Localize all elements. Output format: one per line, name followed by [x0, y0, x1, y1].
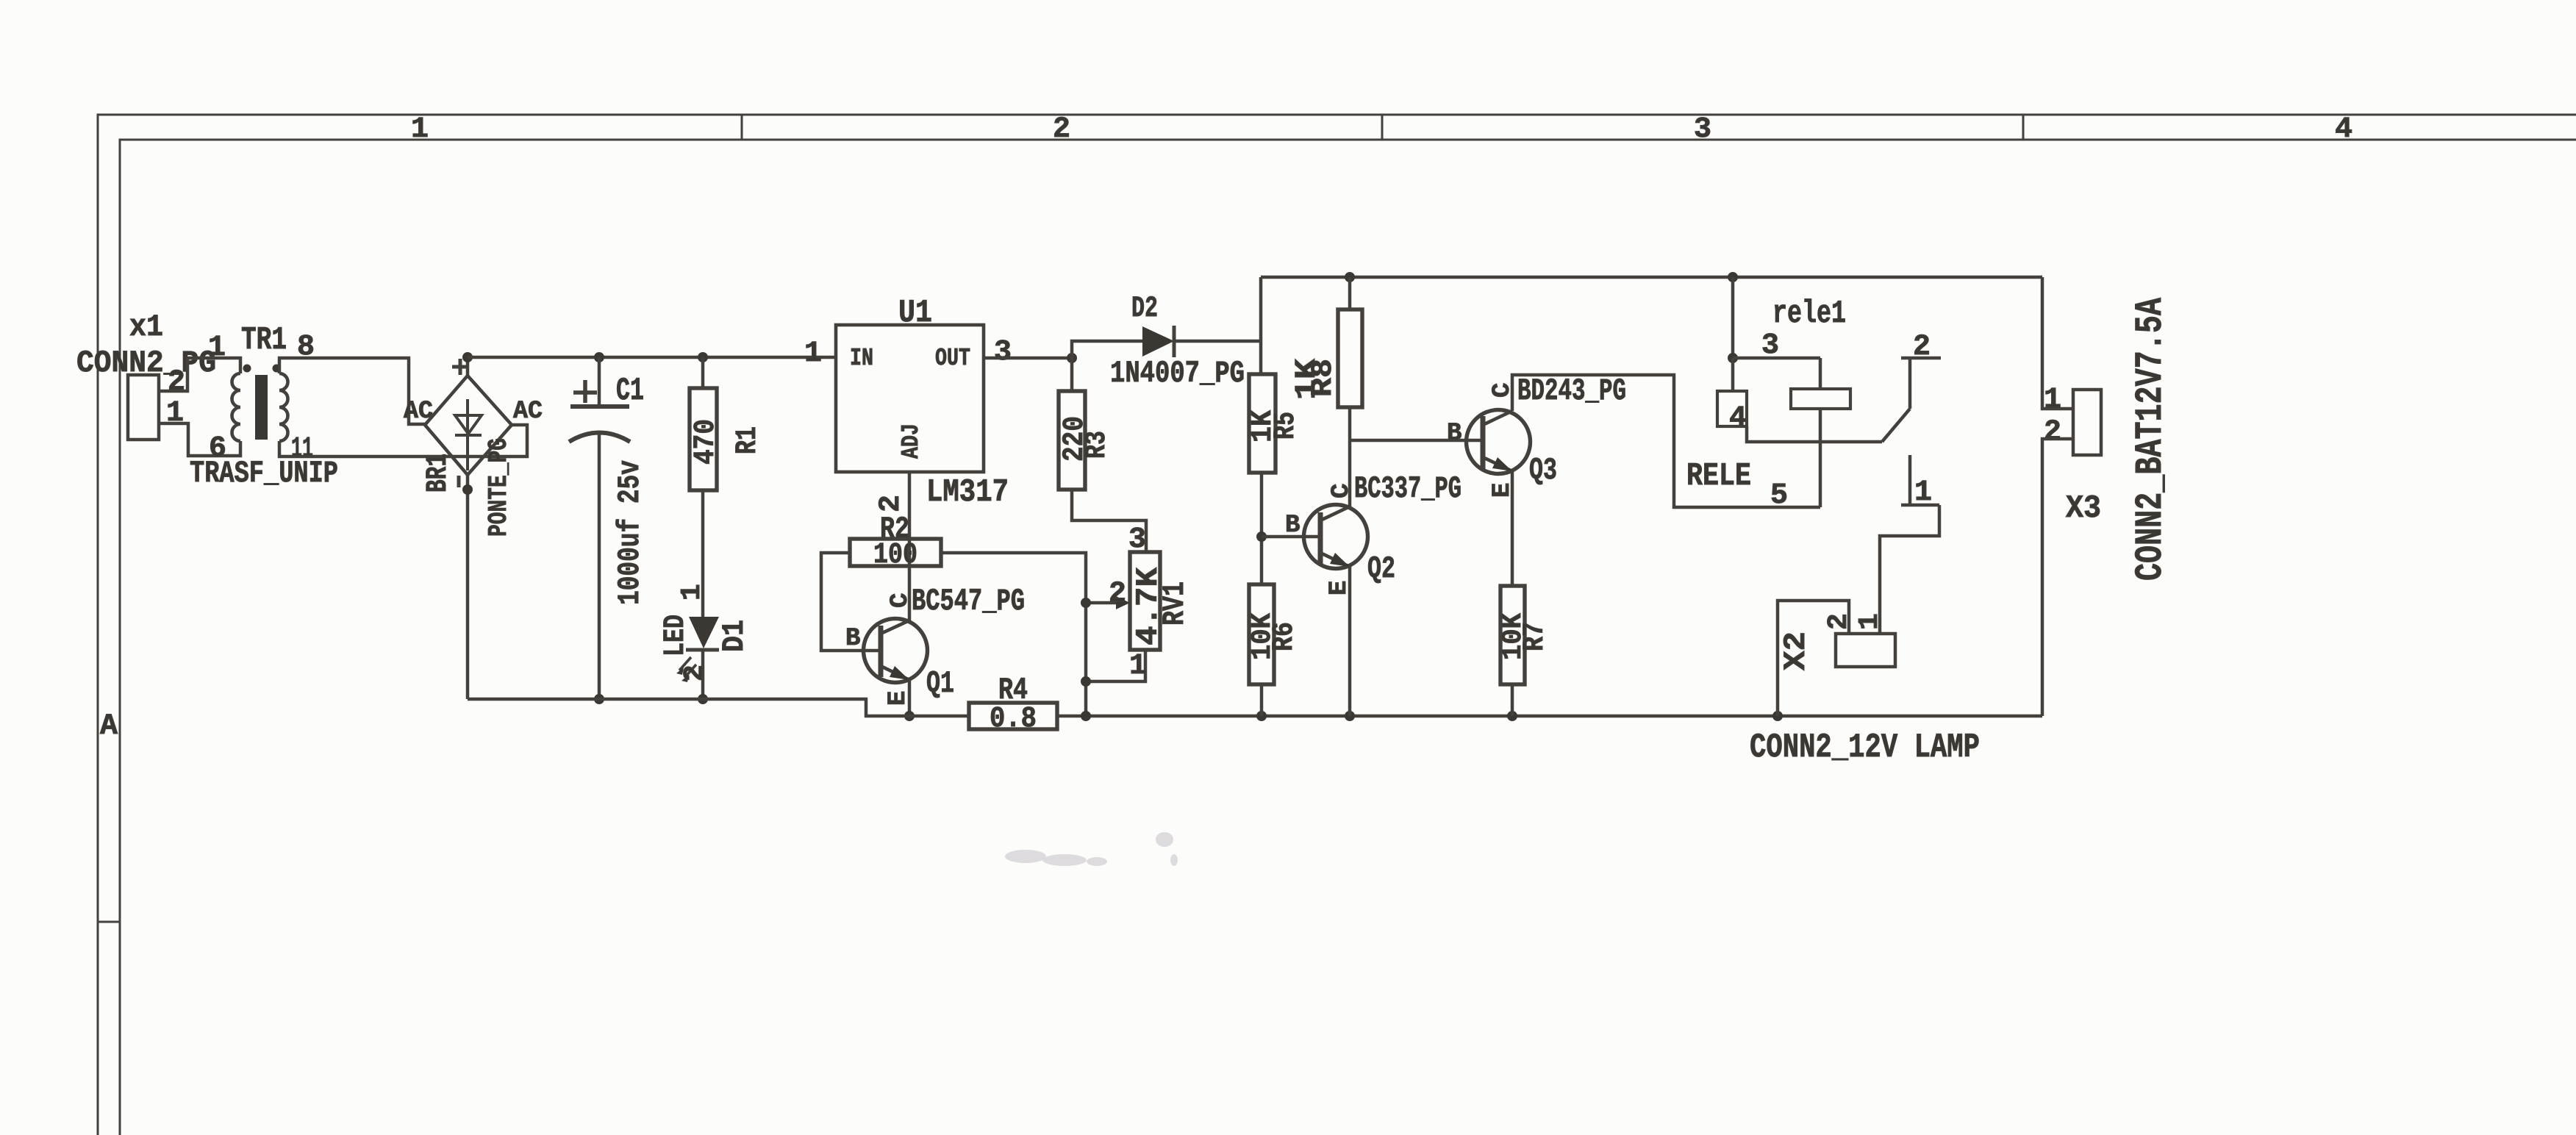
- wire OUT node down to R3: [1070, 358, 1074, 391]
- BR1 minus label: [457, 476, 461, 487]
- C1 top plate: [570, 404, 629, 409]
- svg-text:1000uf 25v: 1000uf 25v: [612, 460, 648, 605]
- border column tick 3|4: [2022, 115, 2025, 140]
- border column tick 2|3: [1381, 115, 1384, 140]
- svg-text:BC547_PG: BC547_PG: [912, 584, 1025, 619]
- junction dot OUT node: [1067, 353, 1077, 363]
- svg-text:1: 1: [1914, 476, 1932, 509]
- scan smudges (decorative): [1005, 832, 1178, 866]
- Q3 emitter lead: [1511, 471, 1514, 586]
- svg-text:2: 2: [1823, 613, 1855, 630]
- svg-text:C: C: [887, 593, 915, 608]
- Q1 emitter arrow: [890, 666, 909, 680]
- Q3 emitter diagonal: [1483, 457, 1512, 471]
- potentiometer RV1 body: [1130, 552, 1160, 650]
- svg-text:IN: IN: [850, 345, 873, 372]
- wire TR1 pin8 to bridge AC left: [279, 358, 425, 424]
- junction dot relay supply: [1728, 272, 1738, 282]
- wire D2 to R5 column: [1174, 340, 1261, 343]
- svg-text:X3: X3: [2066, 490, 2101, 527]
- svg-text:2: 2: [1913, 331, 1931, 364]
- connector x1 CONN2_PG body: [128, 375, 159, 440]
- svg-text:B: B: [845, 625, 860, 653]
- svg-text:E: E: [884, 691, 912, 706]
- svg-text:R7: R7: [1519, 622, 1552, 651]
- svg-text:LM317: LM317: [926, 474, 1009, 511]
- junction dot R7 bottom: [1507, 711, 1517, 721]
- Q1 collector diagonal: [881, 620, 909, 634]
- border column tick 1|2: [741, 115, 743, 140]
- wire R3 bottom to RV1 pin3: [1072, 490, 1146, 552]
- svg-text:B: B: [1285, 512, 1300, 540]
- junction dot bridge minus: [462, 484, 473, 495]
- Q2 emitter arrow: [1330, 553, 1350, 567]
- Q1 emitter lead: [908, 680, 912, 716]
- TR1 secondary winding: [279, 373, 288, 441]
- relay coil vertical: [1819, 358, 1822, 389]
- svg-text:CONN2_BAT12V7.5A: CONN2_BAT12V7.5A: [2129, 297, 2172, 581]
- svg-text:RV1: RV1: [1157, 581, 1192, 626]
- svg-text:C: C: [1328, 484, 1356, 498]
- wire x1 pin2 to TR1 pin1: [159, 358, 240, 391]
- wire relay pin1 to X2 pin1: [1880, 505, 1939, 634]
- svg-text:OUT: OUT: [935, 345, 970, 372]
- RV1 wiper arrow wire: [1086, 601, 1120, 605]
- svg-text:CONN2_PG: CONN2_PG: [76, 345, 216, 381]
- svg-text:C1: C1: [616, 373, 644, 409]
- junction dot relay pin3: [1728, 353, 1738, 363]
- svg-text:LED: LED: [659, 615, 693, 656]
- svg-text:D1: D1: [717, 620, 752, 652]
- wire x1 pin1 to TR1 pin6: [159, 423, 240, 456]
- junction dot Q2 base node: [1256, 531, 1267, 542]
- svg-text:2: 2: [2044, 416, 2061, 449]
- svg-text:BR1: BR1: [422, 454, 455, 493]
- svg-text:CONN2_12V LAMP: CONN2_12V LAMP: [1750, 728, 1980, 767]
- junction dot bridge plus: [462, 352, 473, 362]
- TR1 polarity dot right: [273, 365, 281, 373]
- op-amp/regulator U1 box: [836, 325, 984, 472]
- capacitor C1 top lead: [598, 357, 601, 407]
- LED D1 cathode bar: [686, 648, 719, 652]
- Q3 emitter arrow: [1492, 457, 1512, 471]
- wire X2 pin2 to rail: [1778, 601, 1849, 716]
- Q1 base bar: [879, 626, 884, 677]
- svg-text:E: E: [1489, 483, 1517, 498]
- Q3 collector diagonal: [1483, 411, 1512, 425]
- svg-text:4: 4: [2335, 113, 2353, 146]
- wire U1 OUT to node: [984, 357, 1072, 360]
- wire relay pin3 to coil top: [1733, 357, 1820, 360]
- wire bridge plus up to node: [466, 357, 470, 376]
- wire R7 bottom to rail: [1511, 684, 1514, 716]
- svg-text:0.8: 0.8: [990, 703, 1037, 736]
- wire bottom rail right: [1057, 715, 2042, 718]
- svg-text:U1: U1: [898, 295, 932, 332]
- wire R6 bottom to rail: [1260, 684, 1264, 716]
- wire bottom rail left: [468, 699, 969, 716]
- relay NC contact pin 2: [1908, 358, 1912, 409]
- wire rail down to X3 pin1: [2042, 277, 2073, 409]
- diode D2 triangle: [1142, 326, 1174, 357]
- Q3 base bar: [1481, 416, 1486, 469]
- svg-text:BC337_PG: BC337_PG: [1354, 471, 1461, 506]
- connector X2 body: [1836, 634, 1895, 667]
- svg-text:C: C: [1489, 383, 1517, 398]
- svg-text:X2: X2: [1778, 631, 1814, 670]
- svg-text:6: 6: [209, 432, 226, 465]
- R1 top lead: [701, 357, 705, 388]
- svg-text:x1: x1: [129, 309, 163, 345]
- svg-text:R5: R5: [1270, 412, 1303, 440]
- svg-text:4: 4: [1729, 402, 1747, 435]
- junction dot RV1 pin1: [1081, 676, 1091, 687]
- svg-text:1: 1: [1854, 613, 1886, 630]
- wire Q2 collector T to Q3 base: [1350, 439, 1482, 443]
- svg-text:2: 2: [679, 665, 711, 681]
- C1 plus sign: [573, 380, 597, 403]
- wire bridge minus down: [466, 475, 470, 699]
- svg-text:1: 1: [676, 584, 708, 601]
- relay armature diagonal: [1882, 409, 1910, 442]
- junction dot R6 bottom: [1256, 711, 1267, 721]
- resistor R7 body: [1500, 586, 1525, 684]
- wire R8 bottom to Q2 collector: [1348, 407, 1352, 507]
- wire R2 right to RV1 column: [941, 553, 1086, 716]
- junction dot R8 top: [1345, 272, 1355, 282]
- wire R2 left to Q1 base: [821, 553, 879, 651]
- svg-text:RELE: RELE: [1686, 458, 1751, 495]
- wire R5 bottom to Q2 base node: [1260, 473, 1264, 584]
- junction dot C1 top: [594, 352, 604, 362]
- svg-text:E: E: [1325, 581, 1353, 595]
- wire relay pin4 down: [1731, 358, 1735, 391]
- svg-text:Q3: Q3: [1529, 453, 1557, 488]
- junction dot Q1 emitter: [904, 711, 915, 721]
- wire top right rail: [1261, 276, 2042, 279]
- LED D1 lead to rail: [701, 650, 705, 699]
- bridge BR1 diamond: [425, 376, 512, 475]
- D2 cathode bar: [1173, 326, 1176, 357]
- resistor R2 body: [850, 539, 941, 566]
- svg-text:1: 1: [2044, 384, 2061, 417]
- connector X3 body: [2073, 390, 2101, 455]
- svg-text:Q1: Q1: [926, 666, 954, 701]
- RV1 wiper arrowhead: [1116, 596, 1130, 609]
- C1 bottom curved plate: [569, 433, 630, 443]
- junction dot C1 bottom: [594, 694, 604, 704]
- svg-text:AC: AC: [404, 398, 433, 426]
- LED light arrows: [679, 657, 696, 678]
- svg-text:470: 470: [690, 419, 723, 465]
- junction dot Q2 emitter rail: [1345, 711, 1355, 721]
- junction dot RV1 bottom rail: [1081, 711, 1091, 721]
- transistor Q3 circle: [1467, 410, 1531, 474]
- R1 bottom lead: [701, 490, 705, 617]
- svg-text:D2: D2: [1131, 293, 1158, 326]
- Q2 emitter lead: [1348, 567, 1352, 716]
- resistor R8 body: [1338, 309, 1362, 407]
- svg-text:A: A: [100, 710, 118, 743]
- svg-text:R8: R8: [1307, 359, 1340, 397]
- relay NO contact pin 1: [1908, 455, 1912, 504]
- border row tick A|B: [98, 921, 120, 923]
- TR1 polarity dot left: [243, 365, 251, 373]
- svg-text:100: 100: [873, 539, 917, 572]
- svg-text:R1: R1: [731, 426, 765, 454]
- resistor R3 body: [1059, 391, 1085, 490]
- junction dot RV1 wiper: [1081, 598, 1091, 608]
- wire R8 top lead: [1348, 277, 1352, 309]
- svg-text:2: 2: [1053, 113, 1070, 146]
- svg-text:R6: R6: [1268, 622, 1301, 651]
- Q2 base bar: [1318, 512, 1323, 565]
- wire base node to Q2: [1262, 535, 1320, 539]
- resistor R5 body: [1249, 374, 1276, 473]
- svg-text:TR1: TR1: [241, 322, 287, 359]
- svg-text:1: 1: [1129, 650, 1147, 683]
- svg-text:1: 1: [411, 113, 429, 146]
- svg-text:B: B: [1447, 420, 1461, 448]
- wire U1 ADJ down to Q1 collector: [908, 472, 912, 621]
- TR1 core bar: [255, 375, 268, 440]
- svg-text:ADJ: ADJ: [898, 423, 925, 459]
- TR1 primary winding: [232, 373, 241, 441]
- wire top rail bridge to U1 IN: [468, 356, 836, 359]
- wire TR1 pin11 to bridge AC right: [279, 425, 527, 456]
- junction dot X2 pin2 rail: [1772, 711, 1783, 721]
- svg-text:3: 3: [994, 336, 1012, 369]
- wire RV1 pin1 to column: [1086, 650, 1145, 681]
- wire X3 pin2 to rail: [2042, 439, 2073, 716]
- BR1 plus label: [452, 359, 468, 375]
- Q3 collector wire to relay: [1512, 375, 1820, 507]
- svg-text:1: 1: [208, 332, 226, 365]
- C1 bottom lead: [598, 433, 601, 699]
- LED D1 triangle: [689, 617, 719, 648]
- BR1 internal diode: [455, 399, 482, 470]
- resistor R4 body: [969, 703, 1057, 729]
- svg-text:R3: R3: [1081, 431, 1114, 459]
- svg-text:rele1: rele1: [1772, 296, 1846, 332]
- svg-text:3: 3: [1694, 113, 1711, 146]
- svg-text:Q2: Q2: [1367, 551, 1395, 587]
- resistor R6 body: [1249, 584, 1274, 684]
- svg-text:11: 11: [291, 433, 313, 466]
- svg-text:AC: AC: [513, 398, 543, 426]
- relay coil bottom lead pin 5: [1819, 409, 1822, 507]
- svg-text:1: 1: [804, 337, 822, 370]
- junction dot R1 top: [698, 352, 708, 362]
- svg-text:PONTE_PG: PONTE_PG: [484, 438, 514, 537]
- relay coil box: [1791, 389, 1850, 409]
- transistor Q2 circle: [1304, 505, 1368, 569]
- svg-text:2: 2: [1109, 578, 1126, 611]
- svg-text:1N4007_PG: 1N4007_PG: [1110, 356, 1245, 391]
- svg-text:BD243_PG: BD243_PG: [1517, 373, 1626, 409]
- Q2 emitter diagonal: [1320, 553, 1350, 567]
- wire D2 column up to top rail: [1259, 277, 1263, 374]
- svg-text:2: 2: [875, 495, 908, 512]
- transistor Q1 circle: [864, 619, 928, 683]
- svg-text:2: 2: [168, 366, 185, 399]
- relay armature wire: [1747, 426, 1882, 442]
- Q1 emitter diagonal: [881, 666, 909, 680]
- svg-text:5: 5: [1770, 479, 1788, 512]
- Q2 collector diagonal: [1320, 506, 1350, 520]
- junction dot D1 bottom: [698, 694, 708, 704]
- wire relay pin3 from rail: [1731, 277, 1735, 358]
- resistor R1 body: [690, 388, 717, 490]
- wire node up to D2: [1072, 341, 1142, 358]
- relay pin4 frame box: [1717, 391, 1747, 426]
